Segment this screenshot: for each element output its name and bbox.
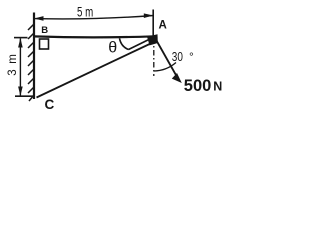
svg-text:N: N bbox=[213, 79, 222, 93]
dimension 3 m down arrow bbox=[18, 87, 23, 97]
dimension 5 m extension line at A bbox=[152, 10, 154, 37]
svg-text:5 m: 5 m bbox=[77, 5, 93, 20]
svg-text:θ: θ bbox=[108, 39, 117, 56]
theta slice edge line to A bbox=[129, 37, 155, 50]
svg-text:C: C bbox=[45, 97, 55, 112]
wall bbox=[33, 13, 35, 100]
dimension 3 m line bbox=[19, 39, 21, 96]
wall hatching bbox=[28, 24, 34, 101]
cable CA bbox=[37, 41, 157, 98]
theta angle arc bbox=[120, 38, 129, 49]
dimension 5 m right arrow bbox=[144, 13, 154, 18]
svg-text:°: ° bbox=[189, 50, 194, 64]
svg-text:500: 500 bbox=[184, 77, 212, 95]
beam BA bbox=[34, 36, 155, 37]
force 500 N line bbox=[155, 37, 177, 76]
svg-text:A: A bbox=[159, 20, 167, 32]
dimension 3 m bottom tick bbox=[15, 95, 35, 97]
dimension 5 m left arrow bbox=[34, 16, 44, 21]
vertical dash-dot reference line below A bbox=[153, 38, 155, 76]
ink wedge at A bbox=[147, 34, 158, 45]
svg-text:B: B bbox=[41, 25, 48, 36]
dimension 3 m up arrow bbox=[18, 38, 23, 48]
dimension 5 m line bbox=[34, 16, 153, 19]
svg-text:3 m: 3 m bbox=[7, 53, 19, 76]
svg-text:30: 30 bbox=[172, 51, 183, 64]
dimension 3 m top tick bbox=[14, 37, 28, 39]
force 500 N arrowhead bbox=[172, 73, 182, 83]
right-angle box at B bbox=[40, 39, 49, 49]
30 degree angle arc bbox=[154, 63, 176, 72]
